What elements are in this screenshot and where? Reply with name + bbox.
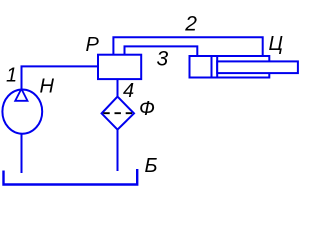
cylinder Ц piston	[211, 56, 213, 78]
svg-text:Ц: Ц	[269, 33, 284, 55]
pump H flow triangle	[15, 89, 27, 101]
cylinder Ц body	[190, 56, 270, 78]
svg-text:Б: Б	[145, 155, 158, 177]
valve P (directional valve block)	[98, 55, 141, 79]
wire 3 (valve P to cylinder left port)	[125, 46, 198, 56]
wire pump suction to tank	[21, 134, 23, 173]
filter Ф dashed element line	[103, 112, 132, 114]
svg-text:Р: Р	[86, 34, 100, 56]
wire pump outlet to valve P	[22, 66, 99, 89]
pump H (circle)	[2, 90, 42, 134]
filter Ф (diamond)	[102, 97, 134, 130]
svg-text:3: 3	[157, 47, 169, 70]
wire valve P to filter	[117, 79, 119, 97]
svg-text:Н: Н	[40, 76, 55, 98]
svg-text:4: 4	[123, 80, 134, 102]
svg-text:2: 2	[184, 12, 197, 35]
svg-text:1: 1	[6, 65, 17, 87]
cylinder Ц rod	[217, 61, 298, 73]
wire filter to tank	[117, 130, 119, 171]
wire 2 (valve P to cylinder right port)	[113, 37, 262, 56]
tank Б	[4, 169, 138, 185]
svg-text:Ф: Ф	[139, 98, 155, 120]
